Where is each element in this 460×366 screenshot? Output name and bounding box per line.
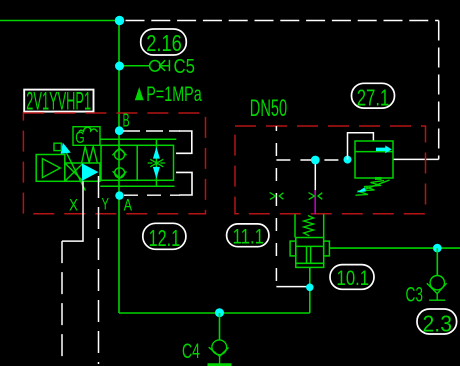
svg-text:A: A (124, 196, 132, 214)
spring below pilot box (82, 146, 98, 162)
solenoid a box (36, 155, 65, 182)
wire white to junction with valve 10.1 drain (276, 286, 306, 288)
small square a (54, 143, 61, 150)
valve 10.1 spring box (295, 214, 324, 237)
wire main vertical line P to B to A (118, 21, 120, 314)
wire C4 branch down (219, 313, 221, 340)
svg-text:DN50: DN50 (250, 95, 287, 122)
wire X pilot line white dashed (61, 241, 63, 362)
svg-text:C3: C3 (406, 283, 424, 306)
wire Y pilot line white dashed (98, 176, 100, 364)
wire lower outline line y186 (100, 185, 174, 187)
node junction dot relief pilot (344, 156, 352, 164)
svg-text:G: G (75, 128, 84, 147)
throttle arrow down cyan (153, 167, 160, 179)
wire white pilot vertical left dashed (275, 126, 277, 287)
svg-text:B: B (123, 111, 130, 131)
label 10.1 tag (330, 265, 374, 290)
relief valve spring (356, 178, 385, 196)
svg-text:P=1MPa: P=1MPa (146, 83, 202, 106)
svg-text:10.1: 10.1 (337, 267, 370, 290)
valve 10.1 spring (304, 216, 314, 236)
pilot bracket upper white (176, 131, 192, 153)
node junction dot mid (311, 156, 320, 165)
svg-text:2.16: 2.16 (146, 30, 182, 56)
cyan indicator triangle (82, 163, 98, 181)
check poppet upper (112, 148, 126, 159)
throttle arrow up cyan (153, 147, 160, 159)
proportional adjust arrow head cyan (61, 143, 71, 154)
node P junction dot (115, 16, 124, 25)
wire white dashed drain line right vertical (438, 21, 440, 160)
proportional adjust arrow shaft (65, 151, 85, 191)
label 2.3 tag (417, 309, 457, 336)
svg-text:Y: Y (102, 196, 110, 214)
wire white pilot to relief valve top (348, 133, 374, 160)
label 27.1 tag (352, 83, 395, 110)
node junction dot drain (306, 284, 314, 292)
throttle cross symbol (148, 159, 166, 167)
wire white drain to relief valve right side (393, 158, 439, 160)
value label dP=1MPa (135, 87, 144, 100)
wire C3 branch down (436, 248, 438, 275)
svg-text:C4: C4 (182, 340, 200, 363)
wire valve 10.1 outlet right (329, 247, 460, 249)
relief valve adjust arrow (362, 180, 390, 191)
node junction dot C4 branch (215, 308, 224, 317)
throttle shut position vertical line (155, 139, 157, 186)
wire A line bottom horizontal (119, 312, 310, 314)
X box cross lines (65, 163, 83, 181)
pilot bracket lower white (176, 172, 192, 195)
check valve C4 (208, 340, 232, 365)
wire white pilot horizontal mid dashed (276, 159, 347, 161)
wire white dashed pilot from B to bracket (123, 130, 180, 132)
wire branch to check valve C5 (119, 65, 150, 67)
node junction dot C3 branch (433, 244, 442, 253)
label 12.1 tag (143, 223, 186, 251)
wire white dashed pilot from A to bracket (124, 194, 180, 196)
pilot X box (65, 163, 100, 181)
test coupling symbol left (270, 193, 284, 200)
check poppet lower (113, 168, 127, 179)
valve 10.1 body (290, 238, 329, 268)
manifold 27.1 red dashed box (235, 126, 426, 214)
svg-text:12.1: 12.1 (149, 225, 181, 251)
svg-text:11.1: 11.1 (233, 226, 265, 249)
relief valve adjust arrow head cyan (357, 187, 366, 192)
check valve C3 (427, 276, 447, 301)
node A junction dot (115, 191, 123, 199)
wire white pilot drop to valve 10.1 (314, 160, 316, 190)
wire X pilot line white (62, 181, 83, 241)
wire white dashed drain line top (126, 20, 439, 22)
wire magenta pilot segment (314, 190, 316, 214)
svg-text:C5: C5 (174, 56, 196, 78)
solenoid triangle (42, 159, 60, 178)
svg-text:27.1: 27.1 (357, 84, 390, 110)
wire valve 10.1 drain down (309, 267, 311, 313)
svg-text:2V1YVHP1: 2V1YVHP1 (26, 88, 91, 116)
label 11.1 tag (227, 224, 269, 249)
wire pilot supply line y139 (100, 138, 176, 140)
test coupling symbol right (309, 193, 323, 200)
svg-text:2.3: 2.3 (423, 310, 453, 336)
wire P supply from left edge (0, 20, 119, 22)
label 2.16 tag (141, 29, 187, 56)
check valve C5 (150, 60, 170, 71)
relief valve U27 body (355, 141, 393, 178)
node B junction dot (115, 126, 124, 135)
svg-text:X: X (69, 196, 78, 214)
label 2V1YVHP1 (24, 88, 93, 116)
pilot valve box G (73, 127, 100, 146)
valve 12.1 enclosure red dashed box (23, 113, 205, 214)
node C5 branch junction dot (115, 62, 124, 71)
valve 12.1 main body (101, 145, 174, 180)
relief valve flow arrow cyan (376, 146, 392, 154)
